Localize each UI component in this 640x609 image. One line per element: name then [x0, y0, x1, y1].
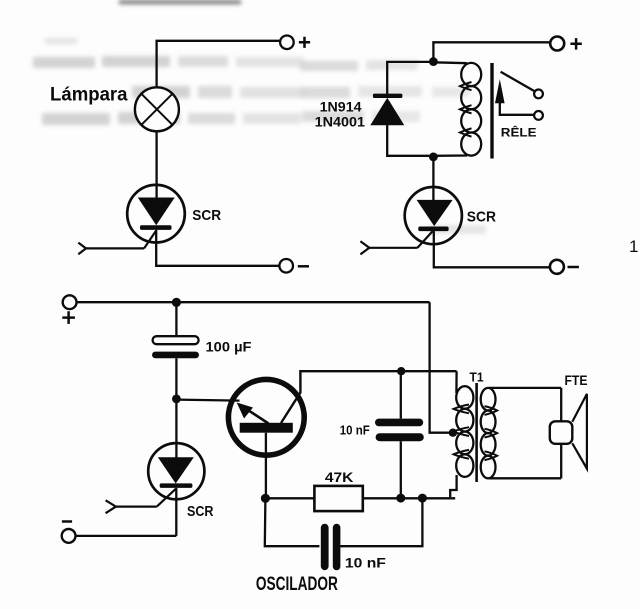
bottom rail right [363, 497, 455, 499]
switch blade [501, 72, 535, 92]
T1 secondary cusp tails [485, 406, 498, 415]
emitter arrowhead [237, 403, 253, 419]
node: emitter junction [172, 395, 181, 404]
T1 secondary loop 2 [481, 411, 496, 434]
minus sign [568, 266, 579, 269]
SCR3 anode wire [175, 399, 177, 458]
SCR3 circle [148, 443, 204, 499]
junction node bottom [429, 153, 438, 162]
top wire to terminal + [433, 42, 549, 61]
secondary top lead [489, 387, 561, 389]
SCR2 gate lead with open arrow [418, 231, 434, 248]
T1 primary loop 4 [456, 454, 473, 477]
terminal + circle [550, 37, 564, 51]
svg-text:SCR: SCR [467, 208, 496, 225]
switch contact upper [534, 90, 543, 99]
terminal - circle [62, 529, 76, 543]
node: bottom cap junction [418, 494, 427, 503]
SCR3 cathode bar [160, 483, 193, 488]
svg-text:100 µF: 100 µF [206, 340, 252, 355]
faint bleed-through artifacts [33, 0, 486, 234]
T1 core bar [475, 383, 478, 482]
secondary bottom lead [489, 477, 561, 479]
relay coil loop 4 [461, 133, 481, 156]
T1 primary cusp tails [454, 405, 469, 414]
SCR3 cathode wire [175, 488, 177, 536]
T1 primary loop 3 [456, 432, 473, 455]
terminal + circle [280, 36, 294, 50]
svg-text:1N4001: 1N4001 [315, 114, 366, 130]
plus sign [62, 311, 75, 324]
SCR2 cathode wire to - terminal [434, 231, 550, 267]
svg-text:SCR: SCR [192, 207, 221, 224]
100uF top wire [175, 302, 177, 336]
bottom rail left [265, 497, 314, 499]
actuator arrowhead [495, 79, 505, 103]
minus sign [62, 520, 72, 523]
coil top lead [433, 61, 467, 64]
SCR1 cathode wire down and to - terminal [156, 230, 279, 266]
minus sign [298, 265, 309, 268]
actuator arrow shaft [500, 100, 534, 115]
speaker wires [560, 388, 562, 421]
emitter line [240, 405, 269, 424]
node: base junction [261, 494, 270, 503]
SCR2 circle [405, 187, 462, 244]
emitter wire [176, 400, 239, 401]
gate lead with open arrow [144, 231, 156, 249]
svg-text:10 nF: 10 nF [345, 555, 386, 571]
SCR1 cathode bar [140, 225, 172, 230]
svg-text:FTE: FTE [565, 372, 588, 388]
SCR3 triangle [158, 457, 194, 483]
10nF top cap wires [400, 371, 402, 418]
node: top rail junction [172, 298, 181, 307]
svg-text:47K: 47K [325, 470, 354, 485]
SCR2 anode wire [432, 158, 434, 200]
diode branch wires [387, 62, 433, 95]
collector lead [281, 371, 457, 423]
SCR2 cathode bar [418, 227, 448, 232]
base lead [265, 433, 267, 499]
terminal - circle [550, 260, 564, 274]
svg-text:T1: T1 [470, 370, 484, 385]
SCR1 triangle [138, 198, 175, 226]
10nF bottom cap plate 2 [333, 524, 341, 571]
node: collector junction [397, 367, 405, 375]
transistor base bar [240, 423, 293, 433]
svg-text:1: 1 [629, 237, 638, 256]
T1 primary bottom lead [450, 475, 456, 497]
100uF plus plate (hollow) [153, 336, 199, 344]
resistor 47K body [314, 486, 362, 511]
SCR2 triangle [417, 200, 453, 226]
relay coil loop 2 [461, 86, 481, 109]
T1 primary loop 1 [456, 386, 473, 409]
SCR1 circle [127, 185, 185, 243]
svg-text:Lámpara: Lámpara [50, 85, 128, 106]
T1 primary top lead [455, 371, 458, 393]
terminal + circle [63, 295, 77, 309]
transistor circle [228, 379, 304, 455]
10nF bottom cap wires [265, 498, 320, 546]
speaker cone [572, 394, 587, 469]
T1 secondary loop 1 [481, 388, 496, 411]
diode cathode bar [373, 94, 403, 98]
plus sign [299, 37, 310, 48]
diode triangle [370, 98, 404, 125]
center-tap branch [430, 302, 453, 433]
10nF bottom cap plate 1 [321, 524, 329, 571]
node: center tap [449, 429, 457, 437]
bottom wire to - terminal [76, 535, 176, 537]
100uF minus plate (solid) [152, 352, 199, 359]
switch contact lower [534, 111, 543, 120]
T1 secondary loop 4 [481, 456, 496, 479]
svg-text:1N914: 1N914 [320, 99, 362, 115]
lamp (circle with X) [135, 87, 179, 131]
speaker box [550, 421, 573, 444]
relay coil loop 3 [461, 109, 481, 132]
svg-text:RÊLE: RÊLE [501, 124, 537, 139]
plus sign [570, 38, 581, 50]
top rail [77, 301, 430, 303]
svg-text:SCR: SCR [187, 504, 214, 520]
coil bottom lead [433, 154, 467, 157]
10nF top cap plate 1 [375, 419, 423, 427]
SCR3 gate lead with open arrow [157, 489, 176, 507]
svg-text:OSCILADOR: OSCILADOR [256, 573, 338, 595]
T1 secondary loop 3 [481, 433, 496, 456]
terminal - circle [279, 259, 293, 273]
wire lamp to SCR [155, 131, 157, 198]
10nF top cap plate 2 [376, 433, 424, 441]
wire top rail to terminal + [157, 41, 280, 88]
coil cusp tails [460, 82, 472, 90]
node: 10nF bottom junction [396, 494, 405, 503]
junction node top [429, 57, 438, 66]
relay core bar [490, 63, 493, 159]
T1 primary loop 2 [456, 409, 473, 432]
100uF bottom wire [175, 358, 177, 399]
relay coil loop 1 [461, 63, 481, 86]
svg-text:10 nF: 10 nF [340, 424, 370, 438]
